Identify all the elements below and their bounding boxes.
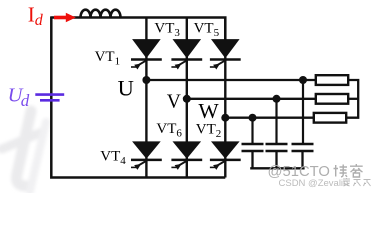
battery (DC source)	[35, 93, 64, 96]
watermark @51CTO	[268, 164, 330, 180]
svg-text:4: 4	[120, 155, 126, 167]
node V	[183, 95, 191, 103]
watermark glyphs ai-hui-hui	[343, 178, 371, 186]
background watermark glyph	[2, 111, 46, 191]
svg-text:U: U	[118, 75, 134, 100]
svg-text:VT: VT	[156, 121, 176, 137]
junction on V line	[273, 95, 281, 103]
junction on U line	[299, 76, 307, 84]
node U	[142, 76, 150, 84]
capacitor C3	[292, 143, 314, 146]
node W	[221, 114, 229, 122]
svg-text:d: d	[35, 12, 44, 29]
capacitor C2	[266, 143, 288, 146]
wire: V line	[187, 98, 316, 100]
resistor R3	[314, 113, 346, 123]
wire: cap drop from U line	[302, 80, 304, 143]
wire: W line	[225, 117, 313, 119]
svg-text:VT: VT	[95, 49, 115, 65]
svg-text:5: 5	[214, 27, 220, 39]
svg-text:VT: VT	[154, 21, 174, 37]
svg-text:I: I	[28, 3, 35, 27]
thyristor VT2	[210, 141, 241, 170]
wire: left vertical + bottom rail	[51, 16, 225, 177]
wire: U line	[146, 79, 315, 81]
thyristor VT3	[171, 39, 202, 69]
wire: cap bottom leads + bus	[250, 151, 304, 168]
wire: cap drop from W line	[251, 118, 253, 144]
watermark CSDN @Zevalin	[279, 178, 349, 189]
thyristor VT1	[131, 39, 162, 69]
svg-text:3: 3	[174, 27, 180, 39]
thyristor VT5	[210, 39, 241, 69]
svg-text:VT: VT	[196, 122, 216, 138]
current arrow Id	[54, 16, 67, 20]
svg-text:1: 1	[115, 55, 121, 67]
wire: leg V string	[186, 18, 188, 178]
svg-text:2: 2	[216, 128, 222, 140]
wire: cap drop from V line	[275, 99, 277, 144]
watermark glyph bo	[334, 165, 348, 177]
wire: resistor right bus	[346, 80, 358, 118]
wire: top rail	[51, 18, 225, 42]
inductor L	[81, 10, 121, 18]
junction on W line	[249, 114, 257, 122]
svg-text:CSDN @Zevalin: CSDN @Zevalin	[279, 178, 349, 189]
thyristor VT4	[131, 141, 162, 170]
svg-text:d: d	[21, 91, 30, 110]
wire: leg U string	[145, 18, 147, 178]
watermark glyph ke	[350, 164, 363, 177]
resistor R2	[316, 94, 348, 104]
svg-text:W: W	[198, 99, 219, 123]
svg-text:VT: VT	[100, 149, 120, 165]
wire: leg W string	[224, 18, 226, 178]
svg-text:V: V	[167, 92, 181, 113]
svg-text:6: 6	[176, 128, 182, 140]
thyristor VT6	[171, 141, 202, 170]
capacitor C1	[242, 143, 264, 146]
resistor R1	[316, 75, 348, 85]
svg-text:VT: VT	[194, 21, 214, 37]
